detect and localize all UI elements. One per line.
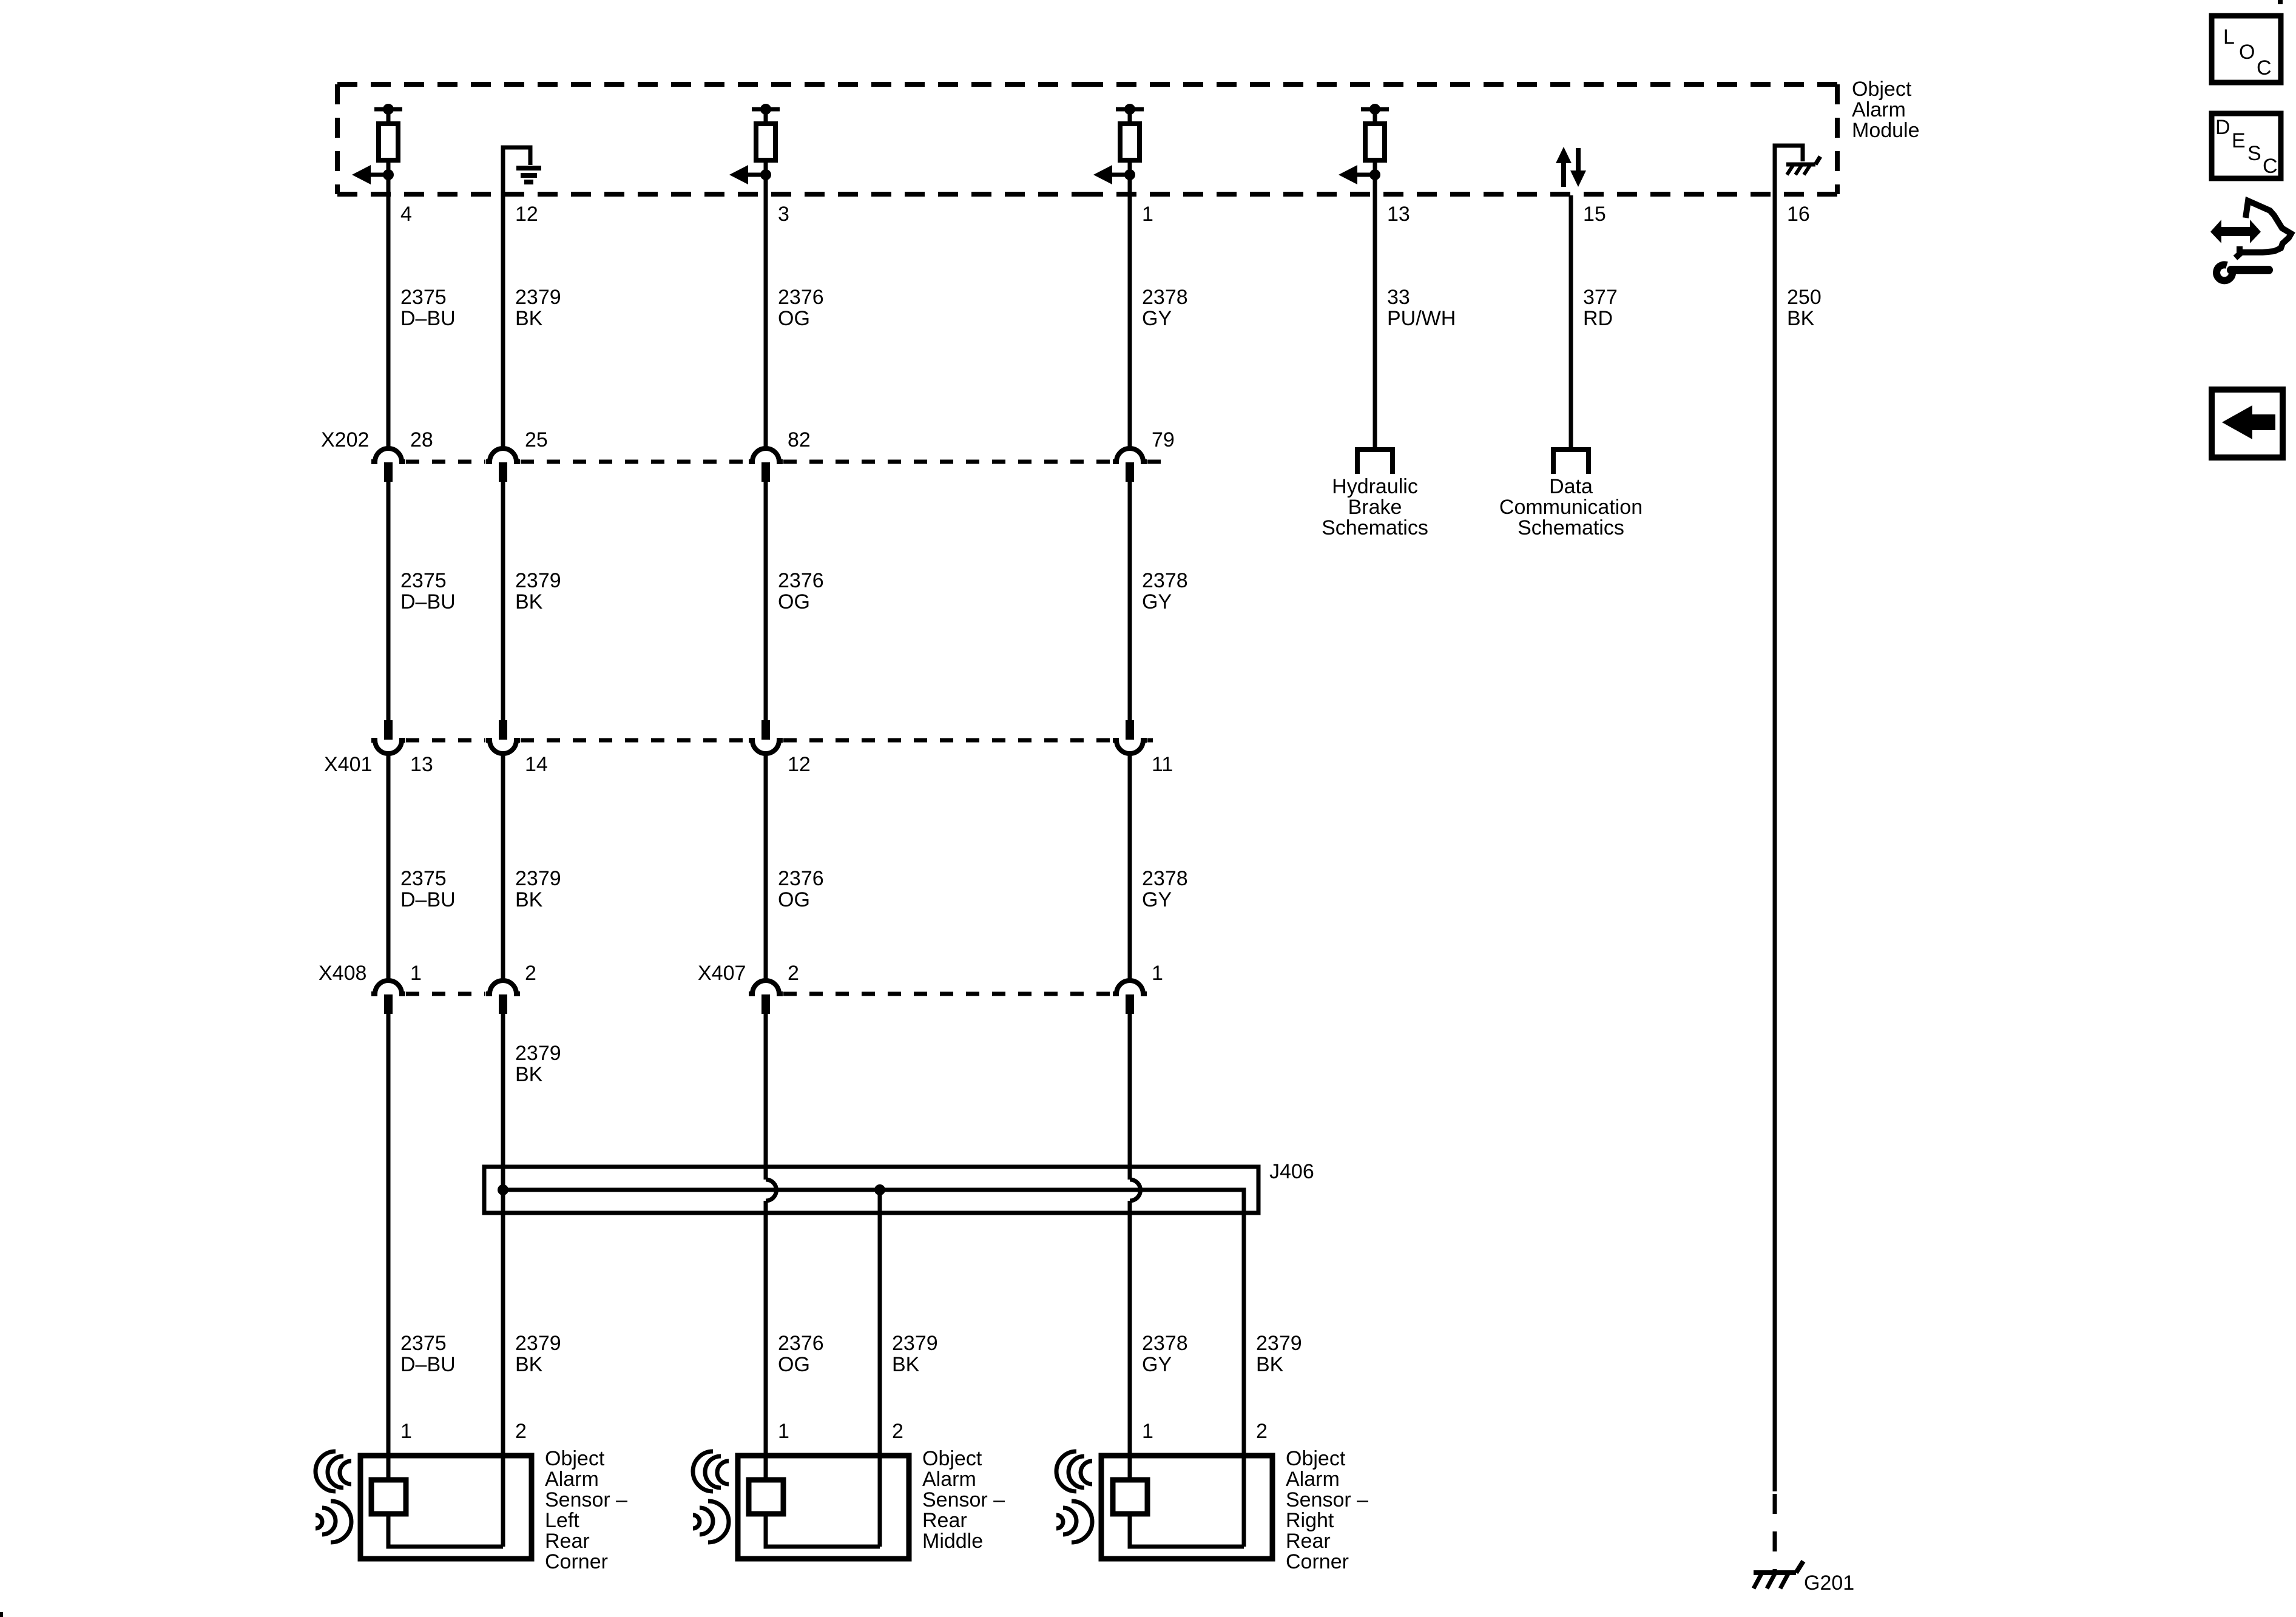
connector terminal X202 pin 79 (pin) xyxy=(1126,462,1134,482)
svg-text:D: D xyxy=(2215,116,2230,139)
wire 2378 X401 to X408/X407 xyxy=(1128,754,1132,981)
svg-text:250: 250 xyxy=(1787,286,1822,309)
svg-text:BK: BK xyxy=(515,888,543,911)
svg-text:1: 1 xyxy=(778,1420,789,1443)
svg-text:1: 1 xyxy=(1152,962,1163,985)
svg-text:2: 2 xyxy=(1256,1420,1268,1443)
svg-text:BK: BK xyxy=(515,590,543,613)
svg-text:E: E xyxy=(2232,129,2246,152)
svg-text:L: L xyxy=(2223,25,2235,49)
off-page connector Data Communication Schematics xyxy=(1499,450,1643,539)
wire 2376 X401 to X408/X407 xyxy=(764,754,768,981)
svg-text:79: 79 xyxy=(1152,428,1175,451)
svg-text:OG: OG xyxy=(778,307,810,330)
wire 250 BK dashed continuation xyxy=(1773,1494,1777,1573)
svg-text:2375: 2375 xyxy=(400,867,447,890)
svg-text:Object: Object xyxy=(1852,78,1912,101)
wire 2378 X202 to X401 xyxy=(1128,482,1132,720)
internal output arrow R4 (pin 13 sense) xyxy=(1339,165,1380,184)
svg-text:2378: 2378 xyxy=(1142,569,1188,592)
wire pin3 module to X202 xyxy=(764,195,768,449)
svg-text:Data: Data xyxy=(1549,475,1593,498)
wire 2379 X401 to X408/X407 xyxy=(501,754,505,981)
svg-text:1: 1 xyxy=(410,962,422,985)
connector terminal X407 pin 1 (arc) xyxy=(1113,981,1147,994)
internal output arrow R3 (pin 1 sense) xyxy=(1093,165,1135,184)
svg-text:1: 1 xyxy=(1142,1420,1153,1443)
wire pin1 module to X202 xyxy=(1128,195,1132,449)
svg-text:2376: 2376 xyxy=(778,286,824,309)
connector X401 dashed line xyxy=(406,738,1153,743)
svg-text:Hydraulic: Hydraulic xyxy=(1332,475,1418,498)
svg-text:15: 15 xyxy=(1583,203,1606,226)
svg-text:2379: 2379 xyxy=(892,1332,938,1355)
svg-text:2379: 2379 xyxy=(515,569,561,592)
back navigation box xyxy=(2212,390,2283,457)
svg-text:C: C xyxy=(2263,155,2278,178)
svg-text:Alarm: Alarm xyxy=(1852,98,1906,121)
svg-text:X202: X202 xyxy=(321,428,369,451)
svg-text:82: 82 xyxy=(788,428,811,451)
svg-text:12: 12 xyxy=(788,753,811,776)
wire 2375 X401 to X408/X407 xyxy=(387,754,391,981)
internal ground of module pin 12 xyxy=(503,147,541,195)
connector terminal X401 pin 11 (arc) xyxy=(1113,740,1147,754)
svg-text:2376: 2376 xyxy=(778,867,824,890)
svg-text:11: 11 xyxy=(1152,753,1173,776)
svg-text:O: O xyxy=(2239,41,2255,64)
svg-text:13: 13 xyxy=(1387,203,1410,226)
connector terminal X202 pin 82 (pin) xyxy=(761,462,770,482)
svg-text:28: 28 xyxy=(410,428,433,451)
connector terminal X408 pin 2 (arc) xyxy=(486,981,520,994)
connector terminal X202 pin 82 (arc) xyxy=(749,448,783,462)
connector terminal X401 pin 13 (pin) xyxy=(384,720,393,740)
Object Alarm Sensor - Right Rear Corner internal wire to pin 2 xyxy=(1130,1514,1244,1547)
connector terminal X202 pin 79 (arc) xyxy=(1113,448,1147,462)
svg-text:BK: BK xyxy=(892,1353,920,1376)
wire 2376 X407 to sensor rear middle (hops J406 bus) xyxy=(764,1014,768,1180)
wire 2378 X407 to sensor right rear (hops J406 bus) xyxy=(1128,1014,1132,1180)
wire 2375 X408 to sensor left rear xyxy=(387,1014,391,1480)
connector-view icon (hand with arrow and wrench) xyxy=(2210,201,2291,280)
internal chassis ground of module pin 16 xyxy=(1775,146,1820,195)
svg-text:OG: OG xyxy=(778,888,810,911)
Object Alarm Sensor - Left Rear Corner internal wire to pin 2 xyxy=(388,1514,503,1547)
connector terminal X408 pin 1 (pin) xyxy=(384,994,393,1014)
svg-text:J406: J406 xyxy=(1269,1160,1314,1183)
svg-text:2: 2 xyxy=(515,1420,527,1443)
connector terminal X408 pin 2 (pin) xyxy=(499,994,507,1014)
svg-text:2379: 2379 xyxy=(515,1332,561,1355)
svg-text:2375: 2375 xyxy=(400,569,447,592)
svg-text:2375: 2375 xyxy=(400,286,447,309)
svg-text:GY: GY xyxy=(1142,888,1172,911)
svg-text:377: 377 xyxy=(1583,286,1618,309)
off-page connector Hydraulic Brake Schematics xyxy=(1322,450,1428,539)
Object Alarm Sensor - Left Rear Corner box xyxy=(360,1456,532,1559)
svg-text:2375: 2375 xyxy=(400,1332,447,1355)
connector terminal X407 pin 2 (arc) xyxy=(749,981,783,994)
connector X202 dashed line xyxy=(406,460,1166,464)
Object Alarm Sensor - Rear Middle transducer element xyxy=(749,1480,783,1514)
svg-text:GY: GY xyxy=(1142,590,1172,613)
Object Alarm Sensor - Right Rear Corner transducer element xyxy=(1113,1480,1147,1514)
connector X408 dashed line xyxy=(406,992,485,996)
svg-text:1: 1 xyxy=(1142,203,1153,226)
svg-text:1: 1 xyxy=(400,1420,412,1443)
svg-text:2378: 2378 xyxy=(1142,867,1188,890)
svg-text:BK: BK xyxy=(515,1063,543,1086)
resistor internal R3 (pin 1 sense) xyxy=(1116,104,1144,195)
wire J406 to sensor rear middle pin 2 xyxy=(878,1190,882,1547)
svg-text:16: 16 xyxy=(1787,203,1810,226)
wire 2376 X202 to X401 xyxy=(764,482,768,720)
internal data arrows of module pin 15 xyxy=(1556,147,1586,187)
svg-text:25: 25 xyxy=(525,428,548,451)
internal output arrow R1 (pin 4 sense) xyxy=(352,165,394,184)
connector terminal X401 pin 11 (pin) xyxy=(1126,720,1134,740)
connector terminal X202 pin 28 (arc) xyxy=(371,448,405,462)
svg-text:2376: 2376 xyxy=(778,569,824,592)
svg-text:D–BU: D–BU xyxy=(400,590,456,613)
svg-text:2379: 2379 xyxy=(515,286,561,309)
svg-text:3: 3 xyxy=(778,203,789,226)
svg-text:D–BU: D–BU xyxy=(400,307,456,330)
connector terminal X401 pin 14 (pin) xyxy=(499,720,507,740)
svg-text:D–BU: D–BU xyxy=(400,1353,456,1376)
ultrasonic waves of sensor rear middle xyxy=(693,1451,729,1542)
svg-text:2: 2 xyxy=(788,962,799,985)
connector terminal X401 pin 12 (pin) xyxy=(761,720,770,740)
svg-text:PU/WH: PU/WH xyxy=(1387,307,1456,330)
wire 2379 X202 to X401 xyxy=(501,482,505,720)
splice pack J406 box xyxy=(484,1167,1258,1213)
svg-text:2379: 2379 xyxy=(1256,1332,1302,1355)
svg-text:X407: X407 xyxy=(698,962,746,985)
connector terminal X202 pin 25 (pin) xyxy=(499,462,507,482)
wire pin16 module to G201 xyxy=(1773,195,1777,1491)
connector terminal X401 pin 14 (arc) xyxy=(486,740,520,754)
connector terminal X202 pin 25 (arc) xyxy=(486,448,520,462)
wire 2379 X408 to J406 splice and sensor left rear pin 2 xyxy=(501,1014,505,1547)
svg-text:X401: X401 xyxy=(324,753,372,776)
Object Alarm Module dashed outline xyxy=(337,84,1837,194)
J406 bus wire xyxy=(503,1190,1244,1547)
Object Alarm Sensor - Right Rear Corner box xyxy=(1101,1456,1272,1559)
connector terminal X401 pin 12 (arc) xyxy=(749,740,783,754)
svg-text:BK: BK xyxy=(515,1353,543,1376)
svg-text:13: 13 xyxy=(410,753,433,776)
connector X407 dashed line xyxy=(783,992,1112,996)
ultrasonic waves of sensor right rear corner xyxy=(1056,1451,1092,1542)
ground G201 xyxy=(1754,1561,1803,1588)
svg-text:Communication: Communication xyxy=(1499,496,1643,519)
svg-text:33: 33 xyxy=(1387,286,1410,309)
svg-text:G201: G201 xyxy=(1804,1571,1854,1595)
wire pin12 module to X202 xyxy=(501,195,505,449)
svg-text:2378: 2378 xyxy=(1142,1332,1188,1355)
svg-text:BK: BK xyxy=(1787,307,1815,330)
svg-text:4: 4 xyxy=(400,203,412,226)
Object Alarm Sensor - Left Rear Corner transducer element xyxy=(371,1480,406,1514)
svg-text:Module: Module xyxy=(1852,119,1920,142)
svg-text:2376: 2376 xyxy=(778,1332,824,1355)
svg-text:Brake: Brake xyxy=(1348,496,1402,519)
splice junction middle branch xyxy=(874,1184,885,1195)
svg-text:RD: RD xyxy=(1583,307,1613,330)
wire pin15 module to Data Communication Schematics xyxy=(1569,195,1573,449)
splice junction on 2379 BK xyxy=(498,1184,508,1195)
svg-text:2: 2 xyxy=(525,962,536,985)
svg-text:Schematics: Schematics xyxy=(1322,516,1428,539)
connector terminal X407 pin 1 (pin) xyxy=(1126,994,1134,1014)
svg-text:OG: OG xyxy=(778,1353,810,1376)
svg-text:2: 2 xyxy=(892,1420,903,1443)
svg-text:2379: 2379 xyxy=(515,1042,561,1065)
resistor internal R1 (pin 4 sense) xyxy=(374,104,402,195)
svg-text:2379: 2379 xyxy=(515,867,561,890)
page artifact bottom left xyxy=(0,1612,3,1617)
LOC navigation box xyxy=(2212,16,2281,83)
resistor internal R4 (pin 13 sense) xyxy=(1361,104,1389,195)
internal output arrow R2 (pin 3 sense) xyxy=(729,165,771,184)
ultrasonic waves of sensor left rear corner xyxy=(316,1451,351,1542)
svg-text:X408: X408 xyxy=(319,962,366,985)
svg-text:12: 12 xyxy=(515,203,538,226)
wire 2375 X202 to X401 xyxy=(387,482,391,720)
svg-text:OG: OG xyxy=(778,590,810,613)
Object Alarm Sensor - Rear Middle box xyxy=(738,1456,909,1559)
svg-text:GY: GY xyxy=(1142,307,1172,330)
connector terminal X407 pin 2 (pin) xyxy=(761,994,770,1014)
svg-text:BK: BK xyxy=(1256,1353,1284,1376)
DESC navigation box xyxy=(2212,113,2281,178)
svg-text:S: S xyxy=(2247,142,2261,165)
svg-text:BK: BK xyxy=(515,307,543,330)
connector terminal X401 pin 13 (arc) xyxy=(371,740,405,754)
wire pin4 module to X202 xyxy=(387,195,391,449)
resistor internal R2 (pin 3 sense) xyxy=(752,104,780,195)
wire pin13 module to Hydraulic Brake Schematics xyxy=(1373,195,1377,449)
svg-text:14: 14 xyxy=(525,753,548,776)
svg-text:D–BU: D–BU xyxy=(400,888,456,911)
svg-text:GY: GY xyxy=(1142,1353,1172,1376)
connector terminal X408 pin 1 (arc) xyxy=(371,981,405,994)
svg-text:2378: 2378 xyxy=(1142,286,1188,309)
connector terminal X202 pin 28 (pin) xyxy=(384,462,393,482)
svg-text:Schematics: Schematics xyxy=(1518,516,1624,539)
page artifact top right xyxy=(2278,0,2283,4)
svg-text:C: C xyxy=(2257,56,2272,79)
Object Alarm Sensor - Rear Middle internal wire to pin 2 xyxy=(766,1514,880,1547)
